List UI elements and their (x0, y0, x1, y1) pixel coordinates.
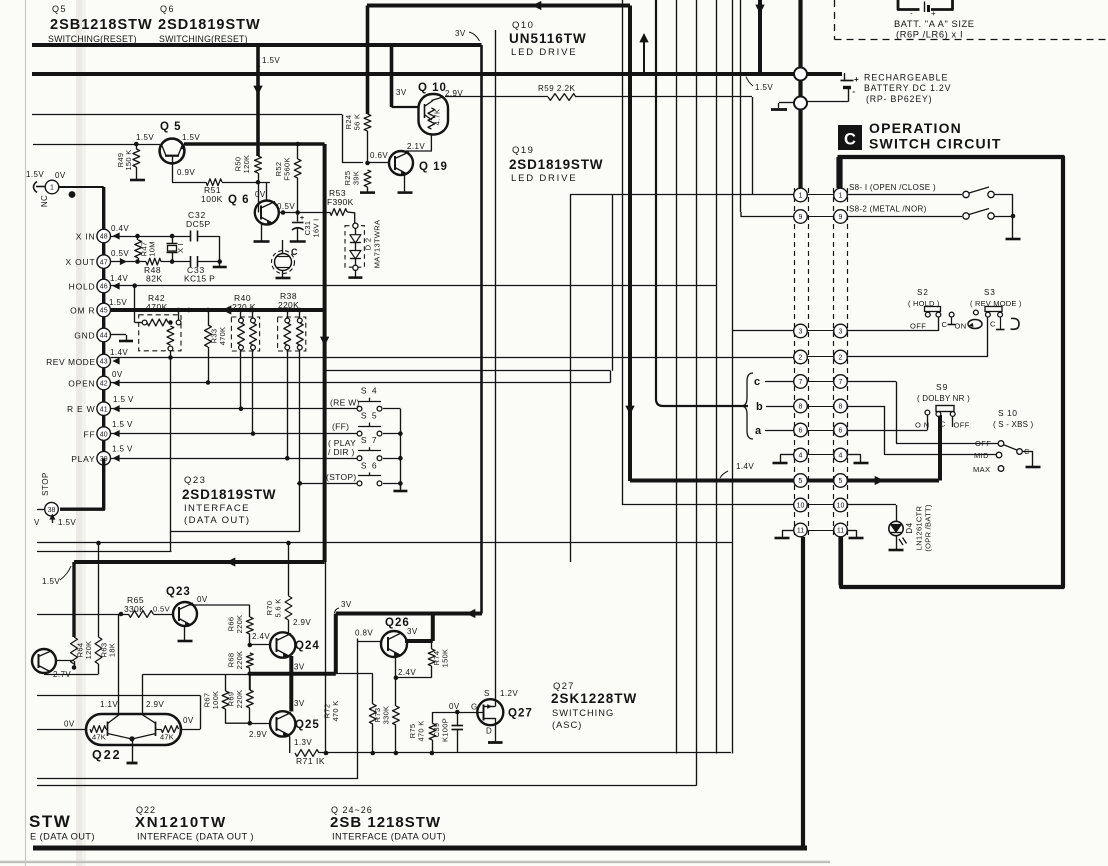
wire STOP net lower jog (171, 531, 300, 533)
svg-text:2.9V: 2.9V (146, 700, 164, 709)
svg-text:KC15 P: KC15 P (184, 274, 215, 284)
wire thick x=74 down to R64 (72, 562, 75, 637)
svg-text:10: 10 (837, 503, 845, 510)
svg-text:100K: 100K (211, 691, 220, 710)
svg-text:5.6 K: 5.6 K (274, 598, 283, 617)
wire Q26 collector thick (405, 639, 433, 643)
wire thick x=324.6 down (323, 144, 327, 562)
wire y=114.5 long thin (32, 114, 342, 116)
svg-text:1.5 V: 1.5 V (112, 445, 133, 454)
svg-text:330K: 330K (124, 604, 145, 614)
svg-text:S3: S3 (984, 288, 996, 297)
svg-text:(ASC): (ASC) (552, 720, 582, 730)
svg-text:18K: 18K (108, 643, 117, 657)
svg-text:(STOP): (STOP) (326, 472, 356, 482)
svg-text:FF: FF (84, 430, 96, 440)
svg-text:1: 1 (839, 193, 843, 200)
page scan edge shading (76, 0, 82, 866)
svg-text:E (DATA OUT): E (DATA OUT) (30, 832, 95, 842)
svg-text:1.5V: 1.5V (262, 56, 280, 65)
component C circled test point (275, 254, 292, 271)
svg-text:SWITCH CIRCUIT: SWITCH CIRCUIT (869, 136, 1002, 152)
svg-text:S 6: S 6 (361, 460, 378, 470)
svg-text:48: 48 (100, 234, 108, 241)
ground left of pin11 (782, 530, 794, 532)
svg-text:9: 9 (839, 214, 843, 221)
wire 3V thick horizontal y=673.8 (250, 672, 336, 676)
svg-text:3V: 3V (341, 600, 352, 609)
svg-text:Q 5: Q 5 (160, 121, 182, 133)
wire thick up x=335.8 and right y=613.5 (334, 614, 338, 674)
svg-text:a: a (755, 425, 762, 437)
resistor R75 470K (429, 724, 436, 741)
wire Q22 left 0V (37, 729, 86, 731)
wire Q27 drain ground (495, 718, 497, 742)
svg-text:2.4V: 2.4V (252, 632, 270, 641)
svg-text:470 K: 470 K (417, 720, 426, 741)
svg-text:8: 8 (799, 404, 803, 411)
svg-text:S 4: S 4 (361, 386, 378, 396)
svg-text:1.5V: 1.5V (755, 83, 773, 92)
resistor R49 150K (134, 142, 139, 147)
svg-text:56 K: 56 K (353, 114, 362, 131)
svg-text:1.5 V: 1.5 V (112, 420, 133, 429)
svg-text:2SK1228TW: 2SK1228TW (551, 691, 637, 706)
wire vertical x=696 (696, 0, 698, 786)
svg-text:40: 40 (100, 431, 108, 438)
svg-text:150 K: 150 K (124, 149, 133, 170)
capacitor C33 KC15P (190, 256, 192, 267)
wire thick Q24 emitter column x=291.3 (289, 656, 293, 712)
svg-text:5: 5 (839, 478, 843, 485)
ground right of pin4 (847, 454, 861, 456)
wire top bus y=5.5 (367, 4, 630, 8)
svg-text:S2: S2 (917, 288, 929, 297)
svg-text:2SD1819STW: 2SD1819STW (509, 157, 603, 172)
svg-text:D 2: D 2 (364, 238, 373, 251)
crystal X1 (172, 236, 174, 244)
svg-text:Q6: Q6 (160, 4, 175, 14)
wire Q19 collector to Q10 (406, 135, 431, 153)
svg-text:1.3V: 1.3V (294, 738, 312, 747)
svg-text:1.5 V: 1.5 V (113, 395, 134, 404)
svg-text:HOLD: HOLD (69, 282, 96, 292)
svg-text:8: 8 (839, 404, 843, 411)
wire vertical x=622 (pin10 net) (622, 0, 624, 505)
resistor R50 120K (255, 156, 262, 173)
svg-text:2SB 1218STW: 2SB 1218STW (330, 814, 441, 831)
wire PLAY row to S7 (111, 458, 357, 460)
wire y=779 Q26 base rail (37, 778, 358, 780)
svg-text:S9: S9 (936, 382, 948, 392)
svg-text:RECHARGEABLE: RECHARGEABLE (864, 73, 948, 83)
svg-text:2SB1218STW: 2SB1218STW (50, 17, 153, 33)
svg-text:D4: D4 (905, 522, 914, 533)
svg-text:LED DRIVE: LED DRIVE (511, 47, 577, 58)
wire pin6 to S9 ON (847, 430, 927, 432)
wire Q6 emitter to ground (261, 224, 263, 241)
wire 3V bus y=45 (32, 43, 482, 47)
svg-text:11: 11 (837, 528, 844, 535)
svg-text:1.5V: 1.5V (136, 133, 154, 142)
svg-text:2.1V: 2.1V (407, 142, 425, 151)
wire x=342 down to 0.6V node (342, 115, 344, 163)
svg-text:C: C (291, 247, 298, 257)
wire X OUT row (111, 261, 147, 263)
svg-text:470 K: 470 K (331, 700, 340, 721)
svg-text:OFF: OFF (910, 322, 926, 331)
svg-text:S 5: S 5 (361, 411, 378, 421)
svg-text:1.5V: 1.5V (109, 298, 127, 307)
svg-text:S8- I (OPEN /CLOSE ): S8- I (OPEN /CLOSE ) (849, 183, 936, 192)
resistor R47 10M (137, 236, 139, 240)
wire x=170.5 down from REV MODE (170, 358, 172, 552)
svg-text:2.9V: 2.9V (293, 618, 311, 627)
svg-text:OPERATION: OPERATION (869, 120, 962, 136)
operation switch circuit box border (838, 157, 1064, 587)
resistor R70 5.6K (288, 543, 290, 596)
wire HOLD row y=285.5 (111, 285, 718, 287)
svg-text:5: 5 (799, 478, 803, 485)
svg-text:( S - XBS ): ( S - XBS ) (993, 420, 1034, 429)
wire Q27 source up (495, 680, 497, 699)
svg-text:SWITCHING(RESET): SWITCHING(RESET) (159, 34, 248, 44)
wire pin10 to D4 (847, 504, 896, 506)
svg-text:0V: 0V (64, 720, 75, 729)
main left connector thick wire (102, 187, 105, 459)
LED D4 LN1261CTR (OPR/BATT) (889, 521, 903, 535)
svg-text:0V: 0V (112, 370, 123, 379)
svg-text:S8-2 (METAL /NOR): S8-2 (METAL /NOR) (849, 205, 927, 214)
wire vertical x=760 thick with down arrow (758, 0, 762, 74)
svg-text:120K: 120K (84, 641, 93, 660)
svg-text:39K: 39K (352, 171, 361, 185)
wires between connector columns (807, 194, 834, 196)
wire 2.7V node (74, 661, 76, 668)
svg-text:Q25: Q25 (295, 719, 320, 731)
svg-text:V: V (34, 518, 40, 527)
wire pin8 to S10 MID (847, 406, 885, 408)
resistor R25 39K (364, 170, 371, 187)
wire X IN row (111, 236, 192, 238)
svg-text:SWITCHING: SWITCHING (552, 708, 614, 718)
ground left of pin4 (780, 454, 794, 456)
wire 1.5V bus y=74 (32, 72, 842, 76)
section badge C (838, 125, 862, 150)
svg-text:2.9V: 2.9V (249, 730, 267, 739)
svg-text:c: c (754, 376, 761, 388)
wire S6 STOP row (297, 483, 357, 485)
svg-text:Q 6: Q 6 (228, 194, 250, 206)
svg-text:82K: 82K (146, 274, 163, 284)
svg-text:Q22: Q22 (92, 748, 122, 762)
svg-text:LED DRIVE: LED DRIVE (511, 173, 577, 184)
svg-text:Q24: Q24 (295, 640, 320, 652)
svg-text:3: 3 (839, 329, 843, 336)
resistor R64 120K (71, 637, 78, 664)
svg-text:INTERFACE (DATA OUT ): INTERFACE (DATA OUT ) (137, 832, 254, 842)
resistor R33 470K (208, 310, 210, 325)
svg-text:0.6V: 0.6V (370, 151, 388, 160)
svg-text:3V: 3V (294, 699, 305, 708)
wire REW row to S4 (111, 408, 357, 410)
svg-text:+: + (854, 75, 859, 84)
svg-text:(RP- BP62EY): (RP- BP62EY) (866, 94, 932, 104)
svg-text:1.2V: 1.2V (500, 689, 518, 698)
wire x=99 from 543 down (98, 543, 100, 614)
svg-text:F560K: F560K (283, 157, 292, 181)
svg-text:7: 7 (839, 379, 843, 386)
svg-text:X OUT: X OUT (66, 257, 96, 267)
svg-text:3V: 3V (294, 663, 305, 672)
svg-text:2: 2 (799, 355, 803, 362)
svg-text:45: 45 (100, 308, 108, 315)
svg-text:MID: MID (974, 451, 989, 460)
svg-text:0.4V: 0.4V (111, 224, 129, 233)
connector pins right column (834, 188, 848, 202)
svg-text:MA713TWRA: MA713TWRA (373, 220, 382, 269)
svg-text:(OPR /BATT): (OPR /BATT) (924, 504, 933, 552)
svg-text:C: C (844, 131, 856, 149)
svg-text:1.4V: 1.4V (110, 348, 128, 357)
svg-text:DC5P: DC5P (186, 219, 211, 229)
svg-text:1: 1 (50, 185, 54, 192)
svg-text:47K: 47K (160, 733, 174, 742)
svg-text:220K: 220K (235, 615, 244, 634)
svg-text:47: 47 (100, 259, 108, 266)
wire Q19 emitter ground (404, 174, 406, 192)
svg-text:1.4V: 1.4V (736, 462, 754, 471)
svg-text:OPEN: OPEN (68, 379, 95, 389)
svg-text:150K: 150K (441, 649, 450, 668)
svg-text:ON: ON (955, 322, 967, 331)
ground S8 (1006, 238, 1021, 241)
svg-text:1.5V: 1.5V (182, 133, 200, 142)
svg-text:9: 9 (799, 214, 803, 221)
connector dashed column right (833, 188, 835, 537)
wire gate row y=712 (433, 712, 484, 714)
svg-text:10: 10 (797, 503, 805, 510)
wire vertical x=717 (716, 0, 718, 754)
svg-text:100K: 100K (201, 194, 223, 204)
svg-text:11: 11 (797, 528, 804, 535)
connector dashed column left (794, 188, 796, 537)
wire y=785.8 (37, 785, 696, 787)
svg-text:BATTERY DC 1.2V: BATTERY DC 1.2V (864, 83, 951, 93)
svg-text:Q23: Q23 (184, 475, 206, 486)
svg-text:LN1261CTR: LN1261CTR (915, 506, 924, 551)
resistor R74 150K (431, 641, 433, 649)
wire pin3 row from x=732 (732, 0, 734, 754)
wire vertical x=391.5 (Q10 base feed) (390, 45, 394, 107)
svg-text:Q23: Q23 (166, 586, 191, 598)
resistor R69 220K (246, 690, 253, 708)
wire Q10 base (431, 97, 443, 101)
svg-text:STOP: STOP (41, 472, 50, 496)
diode pair D2 MA713TWRA dashed box (345, 226, 364, 268)
svg-text:0V: 0V (183, 716, 194, 725)
wire OPEN row (111, 382, 611, 384)
svg-text:470K: 470K (146, 302, 168, 312)
wire REV MODE row (111, 357, 795, 359)
svg-text:4: 4 (839, 453, 843, 460)
wire vertical x=630 thick (pin5 feed) (628, 6, 632, 482)
wire vertical x=570 (570, 195, 572, 563)
svg-text:(R6P /LR6) x I: (R6P /LR6) x I (896, 30, 963, 40)
resistor R67 100K (222, 691, 229, 709)
wire pin2 to S3 common (847, 356, 988, 358)
svg-text:44: 44 (100, 333, 108, 340)
svg-text:BATT. "A A" SIZE: BATT. "A A" SIZE (894, 19, 975, 29)
wire S10 C to ground (1023, 451, 1034, 453)
capacitor C31 16V1 electrolytic (297, 213, 299, 222)
svg-text:4.7K: 4.7K (433, 109, 442, 126)
svg-text:1.5V: 1.5V (26, 170, 44, 179)
svg-text:0.5V: 0.5V (111, 249, 129, 258)
resistor R73 330K (393, 706, 400, 725)
svg-text:/ DIR ): / DIR ) (328, 447, 355, 457)
battery RECHARGEABLE symbol (844, 73, 846, 80)
wire vertical x=656 b-net (655, 0, 657, 399)
wire pin11 left thick down to border (801, 537, 805, 848)
svg-text:0V: 0V (255, 190, 266, 199)
wire Q5 collector row y=144 (33, 144, 160, 146)
svg-text:(DATA OUT): (DATA OUT) (184, 515, 250, 526)
ground below C33 node (219, 262, 221, 266)
svg-text:47K: 47K (92, 733, 106, 742)
wire pin9 row from x=741 (740, 0, 742, 212)
wire vertical x=612 (OPEN net) (612, 195, 614, 371)
svg-text:Q19: Q19 (512, 145, 534, 156)
wire Q22 right 0V riser (181, 729, 200, 731)
wires Q26 base net (358, 641, 381, 643)
capacitor C39 K100P (457, 712, 459, 725)
svg-text:b: b (756, 401, 763, 413)
svg-text:UN5116TW: UN5116TW (509, 31, 587, 46)
svg-text:STW: STW (29, 812, 71, 831)
wire y=551.5 (37, 551, 172, 553)
wire pin1 row y=194.5 (570, 194, 794, 196)
svg-text:0.5V: 0.5V (277, 202, 295, 211)
svg-text:0.5V: 0.5V (153, 605, 170, 614)
ground right of pin11 (847, 530, 856, 532)
wire vertical x=644 with up arrow (643, 38, 645, 74)
resistor R66 220K (249, 605, 251, 617)
svg-text:(RE W): (RE W) (330, 398, 360, 408)
svg-text:1.5V: 1.5V (58, 518, 76, 527)
resistor R52 F560K (297, 144, 299, 159)
junction circle at 1.5V bus x=800 (794, 68, 807, 81)
svg-text:3V: 3V (396, 88, 407, 97)
svg-text:( DOLBY NR ): ( DOLBY NR ) (917, 394, 970, 403)
wire thick x=939 up to S9 (938, 415, 942, 481)
svg-text:41: 41 (100, 406, 108, 413)
svg-text:3V: 3V (455, 29, 466, 38)
wire OMR thick bus y=310 (111, 308, 325, 312)
svg-text:R71 IK: R71 IK (296, 756, 325, 766)
svg-text:3V: 3V (407, 627, 418, 636)
svg-text:X IN: X IN (76, 232, 96, 242)
wire x=752 down to pin1 row (752, 97, 754, 195)
resistor R68 220K (246, 653, 253, 668)
svg-text:R E W: R E W (67, 404, 96, 414)
svg-text:2: 2 (839, 355, 843, 362)
svg-text:330K: 330K (382, 706, 391, 725)
svg-text:6: 6 (839, 428, 843, 435)
svg-text:OFF: OFF (954, 421, 970, 430)
svg-text:0V: 0V (197, 595, 208, 604)
svg-text:XN1210TW: XN1210TW (135, 814, 227, 831)
wire vertical x=800 thick to connector (798, 0, 802, 188)
resistor R65 330K (128, 611, 153, 618)
wire thin y=674 left of thick (143, 674, 250, 676)
wire Q26 emitter to 2.4V node (395, 656, 397, 678)
svg-text:0.8V: 0.8V (355, 629, 373, 638)
svg-text:K100P: K100P (441, 718, 450, 742)
resistor R63 18K (95, 637, 102, 664)
svg-text:7: 7 (799, 379, 803, 386)
svg-text:Q 10: Q 10 (418, 82, 447, 94)
wire pin11 right thick down to box bottom (838, 537, 842, 585)
svg-text:1.1V: 1.1V (100, 700, 118, 709)
wire y=543 (37, 542, 732, 544)
svg-text:X I: X I (176, 243, 185, 253)
wire S8 common to ground (1012, 195, 1014, 239)
svg-text:Q27: Q27 (508, 708, 533, 720)
svg-text:46: 46 (100, 284, 108, 291)
wire y=370.7 jog (325, 370, 611, 372)
svg-text:470K: 470K (218, 327, 227, 346)
wire pin3 to S2 common (847, 330, 938, 332)
wire 1.4V thick bus y=480.5 (630, 479, 939, 483)
battery AA cell symbol (898, 0, 920, 10)
svg-text:2.4V: 2.4V (398, 668, 416, 677)
svg-text:R59 2.2K: R59 2.2K (538, 84, 576, 93)
svg-text:1: 1 (799, 193, 803, 200)
svg-text:0V: 0V (55, 171, 66, 180)
svg-text:4: 4 (799, 453, 803, 460)
wire thin x=325 down to rail (325, 562, 327, 753)
brace for nets a b c (741, 373, 753, 439)
svg-text:(FF): (FF) (332, 422, 349, 432)
svg-text:220K: 220K (235, 690, 244, 709)
svg-text:2SD1819STW: 2SD1819STW (158, 17, 261, 33)
svg-text:S 10: S 10 (998, 408, 1018, 418)
svg-text:SWITCHING(RESET): SWITCHING(RESET) (48, 34, 137, 44)
svg-text:D: D (486, 727, 492, 736)
resistor R71 1K (295, 750, 319, 757)
svg-text:1.4V: 1.4V (110, 274, 128, 283)
svg-text:42: 42 (100, 381, 108, 388)
svg-text:10M: 10M (148, 241, 157, 257)
svg-text:Q 19: Q 19 (419, 161, 448, 173)
svg-text:6: 6 (799, 428, 803, 435)
wire y=695.4 long (37, 695, 200, 697)
rail y=753 (319, 752, 731, 754)
wire pin7 to S10 OFF (847, 381, 896, 383)
transistor partial at left edge (32, 649, 56, 673)
wire FF row to S5 (111, 433, 357, 435)
svg-text:C: C (990, 320, 996, 329)
svg-text:0.9V: 0.9V (177, 168, 195, 177)
ground stub near junction 103 (779, 102, 794, 104)
resistor R72 470K (369, 704, 376, 724)
svg-text:38: 38 (48, 507, 56, 514)
battery box dashed (BATT AA SIZE) (834, 0, 836, 40)
ground below S switches (400, 483, 402, 490)
svg-text:120K: 120K (242, 155, 251, 174)
svg-text:C: C (940, 420, 946, 429)
